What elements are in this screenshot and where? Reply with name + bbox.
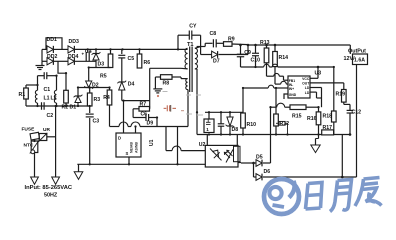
resistor R5 bbox=[110, 49, 112, 54]
svg-text:L1: L1 bbox=[44, 96, 50, 102]
capacitor C3 bbox=[89, 106, 91, 113]
resistor R12 bbox=[275, 90, 277, 114]
primary return wire bbox=[77, 163, 205, 165]
U3 pin GND stub bbox=[284, 94, 288, 99]
svg-text:D5: D5 bbox=[256, 155, 263, 161]
U2 phototransistor bbox=[226, 150, 233, 163]
svg-text:D: D bbox=[118, 136, 121, 141]
resistor R8 bbox=[161, 75, 173, 80]
diode D5 bbox=[241, 162, 256, 164]
U2 right bottom pin bbox=[238, 162, 241, 164]
node main rail left vertical bbox=[41, 49, 43, 61]
svg-text:C3: C3 bbox=[93, 119, 100, 125]
wire L2 bottom stub bbox=[56, 103, 58, 106]
wire input left bbox=[34, 153, 36, 178]
resistor R6 bbox=[139, 49, 141, 54]
svg-text:R15: R15 bbox=[292, 114, 302, 120]
svg-text:DD3: DD3 bbox=[69, 39, 79, 45]
IC U1 bbox=[116, 133, 141, 157]
svg-text:D8: D8 bbox=[232, 127, 239, 133]
input terminal circle bbox=[31, 150, 35, 154]
wire y126.5 with hops bbox=[110, 126, 119, 128]
svg-text:S: S bbox=[126, 151, 129, 156]
wire D5 up to R15 bbox=[270, 107, 272, 163]
capacitor C12 bbox=[349, 104, 351, 110]
U3 pin FB1 wire bbox=[267, 75, 274, 77]
wire U1 pin2 riser bbox=[135, 127, 137, 134]
svg-text:LD: LD bbox=[305, 86, 310, 90]
svg-text:D1: D1 bbox=[70, 105, 77, 111]
diode DD2 bbox=[42, 60, 47, 62]
wire hop over DD1 (AC node) bbox=[46, 38, 62, 50]
svg-text:LD: LD bbox=[305, 91, 310, 95]
capacitor CY bbox=[177, 35, 179, 49]
svg-text:R6: R6 bbox=[144, 60, 151, 66]
svg-text:OUT: OUT bbox=[302, 82, 310, 86]
input arrow 2 bbox=[52, 177, 60, 184]
svg-text:GND: GND bbox=[289, 93, 297, 97]
wire D6 branch bbox=[253, 163, 255, 177]
resistor R17 on rail bbox=[322, 130, 334, 135]
svg-text:NTC: NTC bbox=[24, 143, 34, 149]
wire rail to D6 net bbox=[341, 135, 343, 178]
wire secondary top node bbox=[197, 46, 201, 48]
resistor R4 bbox=[109, 88, 111, 91]
red capacitor mark bbox=[164, 105, 176, 111]
svg-text:DD4: DD4 bbox=[68, 54, 78, 60]
svg-text:OutPut: OutPut bbox=[348, 49, 366, 55]
wire UR right bbox=[47, 136, 56, 138]
svg-text:D9: D9 bbox=[147, 121, 154, 127]
U2 LED bbox=[210, 149, 214, 153]
svg-text:FUSE: FUSE bbox=[22, 127, 36, 133]
mid wire D2/R5/D3 node bbox=[89, 67, 111, 69]
svg-text:D4: D4 bbox=[128, 82, 135, 88]
svg-text:D3: D3 bbox=[98, 62, 105, 68]
wire U1 source down bbox=[128, 157, 130, 164]
U3 pin IN+ wire bbox=[243, 87, 268, 89]
ground (bridge) bbox=[41, 61, 43, 65]
resistor R16 bbox=[318, 107, 320, 112]
capacitor C10 bbox=[255, 45, 257, 53]
svg-text:C6: C6 bbox=[141, 112, 148, 118]
fuse FUSE bbox=[30, 132, 39, 140]
svg-text:50HZ: 50HZ bbox=[44, 192, 58, 198]
svg-text:C5: C5 bbox=[128, 56, 135, 62]
secondary gnd rail y134.5 bbox=[197, 134, 322, 136]
diode D7 bbox=[200, 47, 202, 55]
svg-text:InPut: 85-265VAC: InPut: 85-265VAC bbox=[25, 185, 73, 191]
wire U1 drain riser bbox=[123, 101, 125, 133]
capacitor C5 bbox=[121, 49, 123, 54]
secondary return wire y67 bbox=[241, 66, 264, 68]
svg-text:U2: U2 bbox=[199, 142, 206, 148]
U3 LD2 wire bbox=[310, 91, 317, 93]
watermark logo circle bbox=[264, 179, 299, 214]
svg-text:DD1: DD1 bbox=[47, 37, 57, 43]
T1 primary bottom wire bbox=[181, 67, 188, 70]
small box reference 1 bbox=[204, 119, 214, 133]
capacitor C6 bbox=[132, 109, 134, 118]
U2 right top pin bbox=[236, 135, 238, 146]
resistor R15 bbox=[290, 105, 306, 110]
svg-text:R8: R8 bbox=[163, 81, 170, 87]
varistor UR bbox=[39, 134, 47, 141]
T1 secondary winding bbox=[195, 48, 198, 69]
wire C6 right down bbox=[156, 118, 158, 127]
svg-text:1: 1 bbox=[206, 127, 209, 132]
U3 OUT wire bbox=[310, 82, 344, 84]
svg-text:DD2: DD2 bbox=[47, 54, 57, 60]
svg-text:D7: D7 bbox=[213, 59, 220, 65]
diode DD3 bbox=[68, 46, 74, 53]
svg-text:L2: L2 bbox=[51, 96, 57, 102]
thermistor NTC bbox=[34, 140, 36, 142]
svg-text:R2: R2 bbox=[62, 105, 69, 111]
svg-text:VCC: VCC bbox=[302, 77, 310, 81]
svg-text:U1: U1 bbox=[149, 139, 155, 146]
svg-text:C2: C2 bbox=[47, 113, 54, 119]
wire R15 right bbox=[306, 106, 319, 108]
svg-text:C8: C8 bbox=[210, 31, 217, 37]
svg-text:IN+: IN+ bbox=[289, 87, 294, 91]
wire L1 top node bbox=[37, 85, 39, 90]
resistor R13 bbox=[266, 45, 268, 48]
diode DD1 bbox=[42, 48, 47, 50]
svg-text:R7: R7 bbox=[140, 101, 147, 107]
junction dots bbox=[87, 48, 89, 50]
mid wire y87.5 bbox=[78, 87, 110, 89]
svg-text:C1: C1 bbox=[44, 87, 51, 93]
zener D3 bbox=[95, 49, 97, 53]
svg-text:D6: D6 bbox=[264, 169, 271, 175]
wire aux bottom bbox=[187, 90, 189, 127]
svg-text:R17: R17 bbox=[323, 125, 333, 131]
svg-text:R14: R14 bbox=[279, 55, 289, 61]
output return wire bbox=[356, 65, 358, 178]
U3 LD1 wire bbox=[310, 87, 322, 89]
svg-text:C9: C9 bbox=[244, 50, 251, 56]
resistor R10 bbox=[242, 88, 244, 113]
svg-text:NE/AB: NE/AB bbox=[130, 142, 134, 153]
IC U3 bbox=[288, 76, 310, 98]
filter bottom wire bbox=[26, 105, 90, 107]
zener D2 bbox=[88, 68, 90, 82]
resistor R7 bbox=[139, 107, 150, 112]
wire R7 right up to primary bottom bbox=[149, 108, 151, 110]
faint gray dashes bbox=[163, 92, 204, 116]
wire y150.6 to U2 with hop bbox=[166, 150, 172, 152]
inductor L1 bbox=[35, 90, 37, 103]
diode DD4 bbox=[68, 58, 74, 65]
wire R8 right to aux winding bbox=[172, 76, 181, 78]
wire AC2 from bridge to filter bbox=[58, 61, 66, 90]
wire R1 top to L1 bbox=[26, 84, 38, 86]
U3 pin IN- wire bbox=[275, 83, 281, 85]
ground triangle (secondary) bbox=[318, 135, 320, 139]
wire x166 down bbox=[165, 127, 167, 151]
output box bbox=[353, 54, 368, 65]
watermark text yue (moon) bbox=[330, 180, 352, 212]
svg-text:R1: R1 bbox=[19, 92, 26, 98]
resistor R2 bbox=[64, 90, 69, 103]
capacitor C9 bbox=[240, 45, 242, 54]
resistor R3 bbox=[89, 88, 91, 94]
secondary main rail bbox=[248, 44, 350, 46]
U3 VCC wire bbox=[310, 77, 318, 79]
svg-text:R18: R18 bbox=[323, 114, 333, 120]
svg-text:R16: R16 bbox=[307, 116, 317, 122]
resistor R19 bbox=[342, 90, 347, 103]
earth arrow (primary return) bbox=[78, 164, 80, 172]
junction x179 bbox=[177, 127, 179, 165]
svg-text:R13: R13 bbox=[260, 40, 270, 46]
optocoupler U2 box bbox=[205, 145, 238, 167]
zener D8 bbox=[229, 112, 231, 117]
watermark text chen (dragon) bbox=[355, 178, 382, 207]
resistor R1 bbox=[25, 85, 27, 88]
svg-text:R19: R19 bbox=[336, 92, 346, 98]
wire rail to output bbox=[349, 45, 351, 54]
capacitor C4 bbox=[87, 49, 89, 52]
wire AC right vertical bbox=[55, 106, 57, 177]
capacitor C8 bbox=[201, 46, 206, 48]
svg-text:AS/NB: AS/NB bbox=[135, 142, 139, 153]
ground (R8) bbox=[153, 88, 162, 90]
resistor R9 bbox=[224, 42, 233, 47]
T1 aux winding bbox=[186, 79, 188, 90]
resistor R14 bbox=[274, 45, 276, 52]
capacitor C2 bbox=[41, 102, 43, 110]
diode D6 bbox=[254, 176, 257, 178]
watermark text ri (sun) bbox=[306, 183, 323, 210]
svg-text:C10: C10 bbox=[251, 58, 261, 64]
red dot near ground bbox=[157, 95, 159, 97]
svg-text:UR: UR bbox=[43, 127, 50, 133]
capacitor C11 bbox=[220, 112, 222, 124]
svg-text:1.6A: 1.6A bbox=[354, 58, 365, 64]
wire L1 bottom stub bbox=[37, 103, 39, 106]
zener D4 (vertical) bbox=[119, 82, 125, 90]
wire R8 left to ground bbox=[155, 76, 160, 78]
svg-text:R5: R5 bbox=[100, 74, 107, 80]
capacitor C1 bbox=[37, 76, 39, 85]
resistor R18 bbox=[332, 111, 337, 122]
wire R7 left bbox=[133, 108, 139, 110]
inductor L2 bbox=[54, 90, 56, 103]
input arrow 1 bbox=[31, 177, 39, 184]
svg-text:R3: R3 bbox=[94, 97, 101, 103]
svg-text:CY: CY bbox=[189, 23, 197, 29]
zener D1 bbox=[77, 88, 79, 97]
svg-text:R9: R9 bbox=[228, 37, 235, 43]
svg-text:R10: R10 bbox=[247, 122, 257, 128]
T1 primary winding bbox=[185, 48, 188, 50]
T1 secondary bottom bbox=[195, 68, 197, 70]
U2 left top pin bbox=[206, 135, 208, 146]
svg-text:R4: R4 bbox=[103, 95, 110, 101]
wire y112.3 bbox=[205, 111, 243, 113]
small resistor R11 bbox=[276, 122, 279, 124]
T1 core bbox=[189, 47, 191, 93]
U2 inner bar bbox=[234, 146, 241, 161]
